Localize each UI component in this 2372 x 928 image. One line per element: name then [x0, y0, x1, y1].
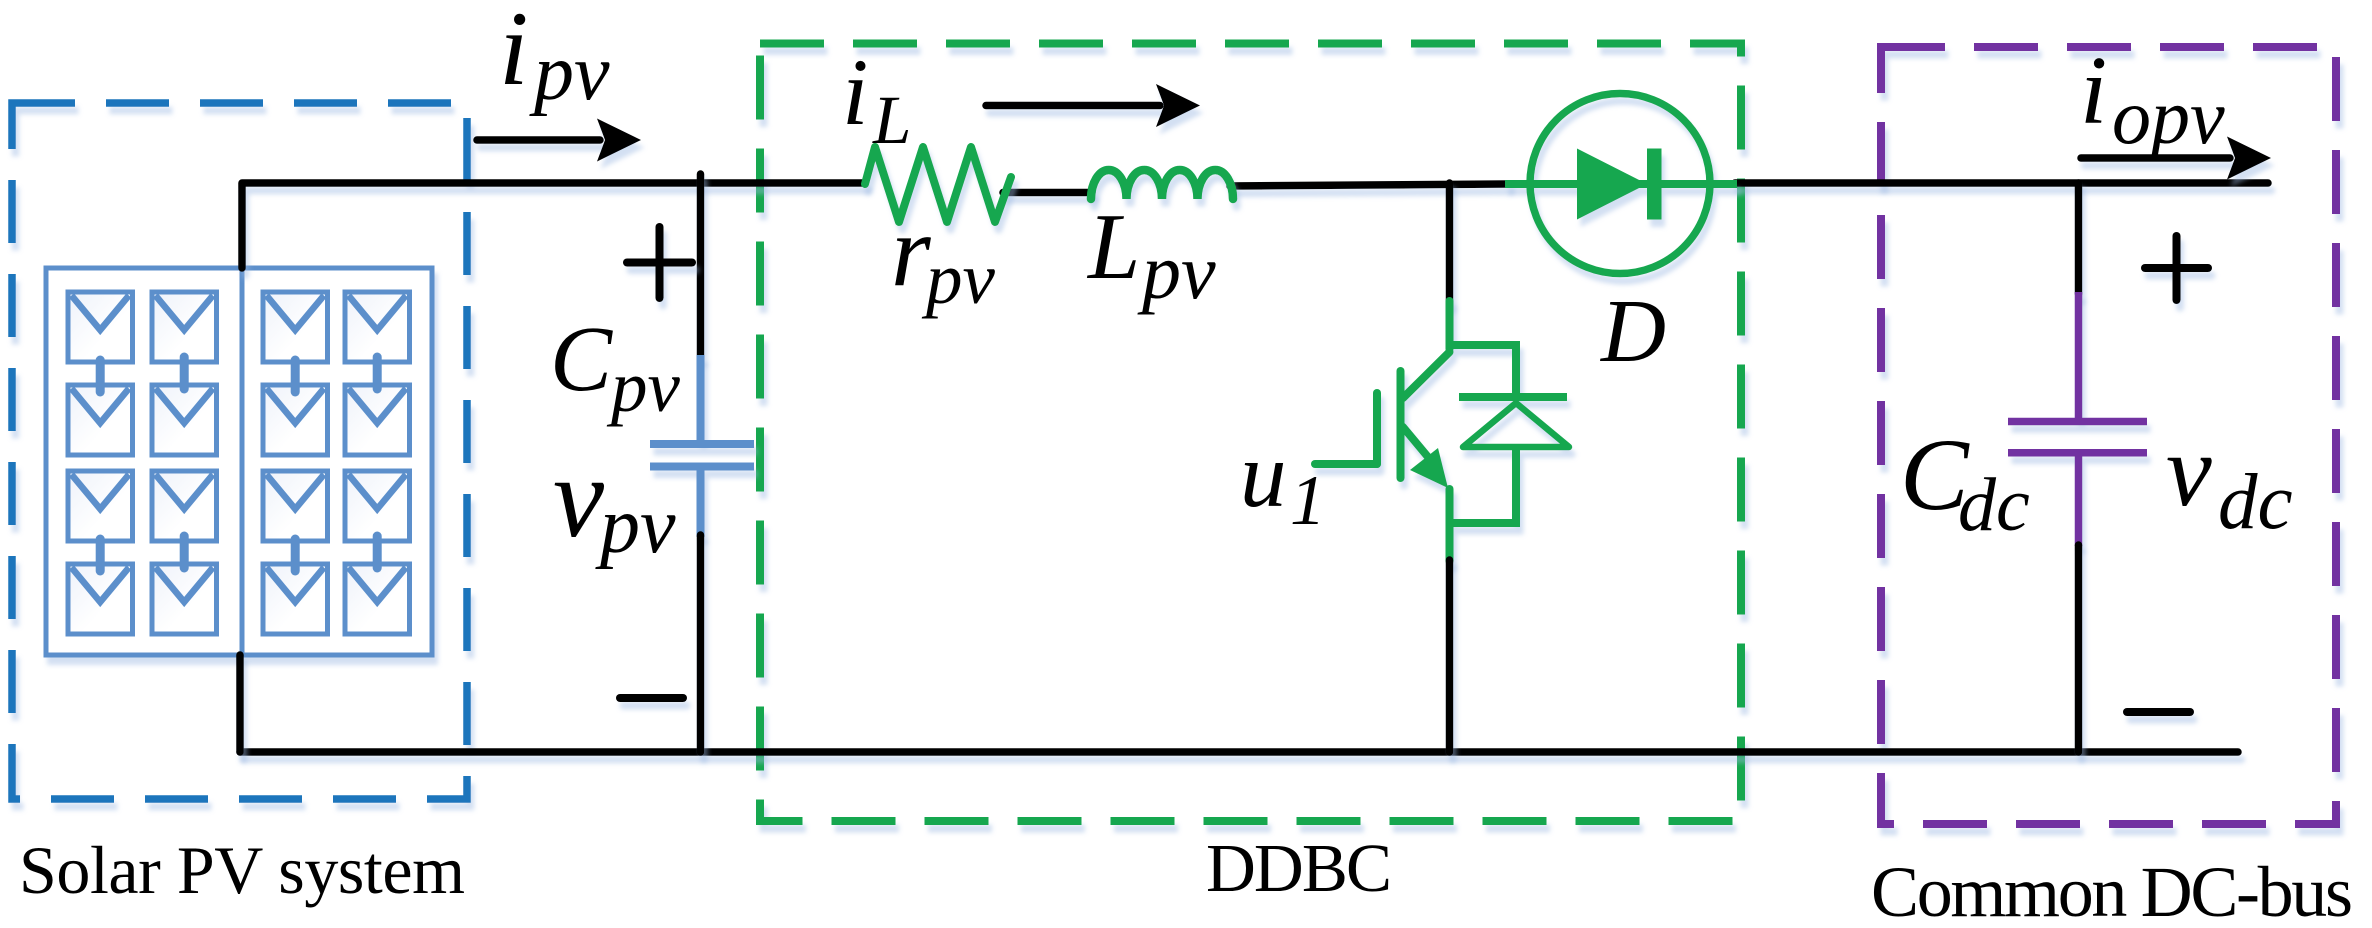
label D	[1599, 282, 1666, 381]
svg-text:pv: pv	[921, 238, 996, 319]
svg-text:1: 1	[1290, 462, 1326, 540]
polarity minus (v_pv)	[620, 694, 683, 702]
resistor r_pv	[865, 147, 1011, 222]
label i_pv	[499, 0, 610, 117]
svg-text:pv: pv	[529, 29, 610, 117]
wire PV panel bottom to bus	[236, 655, 244, 752]
svg-text:Common DC-bus: Common DC-bus	[1871, 852, 2353, 928]
wire between resistor and inductor	[1003, 189, 1092, 197]
svg-text:pv: pv	[606, 346, 681, 427]
wire C_dc bottom lead	[2075, 545, 2083, 752]
svg-text:v: v	[553, 434, 605, 561]
DDBC boundary box (green dashed)	[760, 44, 1741, 822]
svg-text:pv: pv	[1137, 228, 1216, 315]
diode D	[1505, 94, 1737, 274]
label v_pv	[553, 434, 676, 570]
polarity plus (v_pv)	[627, 227, 692, 298]
capacitor C_dc	[2008, 292, 2147, 546]
label u_1	[1240, 424, 1326, 540]
caption Solar PV system	[19, 832, 465, 908]
Solar PV system boundary box (blue dashed)	[12, 103, 467, 799]
svg-text:i: i	[842, 39, 868, 145]
solar PV array	[46, 268, 432, 655]
caption DDBC	[1206, 830, 1392, 906]
label C_dc	[1900, 418, 2030, 547]
svg-text:opv: opv	[2112, 73, 2225, 160]
caption Common DC-bus	[1871, 852, 2353, 928]
wire IGBT emitter to bottom bus	[1446, 560, 1454, 752]
svg-text:u: u	[1240, 424, 1287, 527]
node: IGBT branch top wire	[1446, 183, 1454, 303]
svg-text:D: D	[1599, 282, 1666, 381]
current arrow i_opv	[2081, 137, 2271, 180]
svg-text:dc: dc	[1958, 463, 2030, 547]
wire top bus left segment	[242, 183, 865, 268]
current arrow i_pv	[477, 119, 641, 162]
current arrow i_L	[986, 84, 1200, 127]
svg-text:dc: dc	[2218, 459, 2293, 546]
polarity minus (v_dc)	[2127, 708, 2190, 716]
node: C_dc top junction wire	[2075, 183, 2083, 294]
svg-text:DDBC: DDBC	[1206, 830, 1392, 906]
inductor L_pv	[1091, 170, 1233, 199]
svg-text:i: i	[499, 0, 528, 107]
svg-text:C: C	[550, 308, 613, 411]
label C_pv	[550, 308, 681, 427]
wire between inductor and diode	[1230, 184, 1508, 186]
svg-text:r: r	[891, 195, 931, 308]
svg-text:v: v	[2166, 414, 2212, 528]
svg-text:Solar PV system: Solar PV system	[19, 832, 465, 908]
label v_dc	[2166, 414, 2293, 546]
label r_pv	[891, 195, 996, 319]
svg-text:i: i	[2080, 37, 2107, 145]
Common DC-bus boundary box (purple dashed)	[1881, 47, 2336, 824]
label i_L	[842, 39, 911, 158]
wire top bus right segment	[1735, 179, 2268, 187]
capacitor C_pv	[650, 355, 754, 537]
wire C_pv bottom lead	[697, 535, 705, 752]
label L_pv	[1086, 195, 1216, 315]
polarity plus (v_dc)	[2145, 236, 2208, 300]
label i_opv	[2080, 37, 2225, 160]
wire bottom bus	[240, 748, 2238, 756]
svg-text:pv: pv	[595, 482, 676, 570]
transistor u1 (IGBT with antiparallel diode)	[1315, 301, 1569, 561]
node: C_pv top junction wire	[697, 174, 705, 357]
svg-text:L: L	[1086, 195, 1140, 299]
